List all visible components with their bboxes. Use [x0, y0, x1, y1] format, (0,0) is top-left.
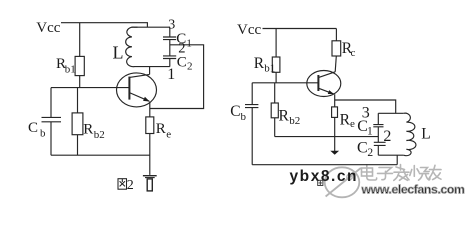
- svg-text:C: C: [230, 103, 240, 120]
- svg-text:R: R: [254, 55, 265, 72]
- svg-text:2: 2: [187, 61, 193, 73]
- svg-text:Vcc: Vcc: [36, 20, 60, 36]
- svg-text:e: e: [166, 128, 171, 140]
- svg-text:C: C: [177, 54, 187, 70]
- svg-text:2: 2: [367, 147, 373, 159]
- svg-text:2: 2: [127, 178, 134, 193]
- svg-text:e: e: [350, 118, 355, 130]
- svg-text:2: 2: [383, 128, 391, 145]
- svg-text:ybx8.cn: ybx8.cn: [290, 168, 359, 185]
- svg-text:L: L: [113, 43, 124, 63]
- svg-text:R: R: [279, 108, 290, 125]
- svg-text:b2: b2: [94, 129, 105, 141]
- svg-text:1: 1: [167, 66, 175, 83]
- svg-text:3: 3: [168, 17, 175, 32]
- svg-text:R: R: [156, 121, 166, 137]
- svg-text:www.elecfans.com: www.elecfans.com: [361, 183, 466, 197]
- svg-text:1: 1: [367, 126, 373, 138]
- svg-text:b: b: [40, 127, 46, 139]
- svg-text:L: L: [421, 126, 430, 143]
- svg-text:1: 1: [186, 38, 192, 50]
- svg-text:b1: b1: [65, 64, 76, 76]
- svg-text:b: b: [241, 111, 247, 123]
- svg-text:R: R: [340, 112, 351, 129]
- svg-text:b2: b2: [289, 115, 300, 127]
- svg-text:c: c: [351, 47, 356, 59]
- svg-text:b1: b1: [264, 62, 275, 74]
- svg-text:C: C: [28, 120, 38, 136]
- svg-text:C: C: [357, 140, 368, 157]
- svg-text:R: R: [83, 122, 93, 138]
- svg-text:Vcc: Vcc: [237, 22, 261, 38]
